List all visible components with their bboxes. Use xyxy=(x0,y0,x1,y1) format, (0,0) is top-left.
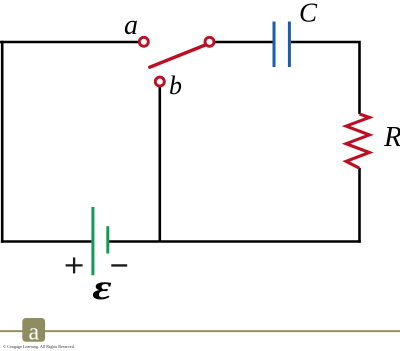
node b terminal circle xyxy=(155,77,164,86)
svg-text:a: a xyxy=(28,319,39,345)
svg-text:ε: ε xyxy=(92,268,111,308)
svg-text:© Cengage Learning. All Rights: © Cengage Learning. All Rights Reserved. xyxy=(3,344,75,349)
capacitor C left plate xyxy=(273,22,276,68)
wire left vertical xyxy=(1,41,4,243)
switch pivot terminal circle xyxy=(205,37,214,46)
wire switch to capacitor xyxy=(214,41,272,44)
wire resistor to bottom-right corner xyxy=(358,168,361,243)
label a xyxy=(124,10,138,41)
wire capacitor to top-right corner and down to resistor xyxy=(291,42,360,114)
svg-text:R: R xyxy=(383,121,400,153)
wire bottom-right segment xyxy=(107,240,361,243)
label R xyxy=(383,121,400,153)
node a terminal circle xyxy=(139,37,148,46)
switch lever (red, open toward node a) xyxy=(150,45,205,67)
wire top-left segment xyxy=(0,41,139,44)
svg-text:C: C xyxy=(299,0,318,28)
svg-text:a: a xyxy=(124,10,138,41)
battery short plate (negative) xyxy=(106,226,109,253)
figure footer rule xyxy=(0,330,400,332)
label + (battery positive) xyxy=(66,257,83,273)
wire from node b down to bottom wire xyxy=(159,86,162,241)
label &#8722; (battery negative) xyxy=(111,264,127,266)
label C xyxy=(299,0,318,28)
label b xyxy=(169,71,182,100)
battery long plate (positive) xyxy=(91,207,94,275)
svg-text:b: b xyxy=(169,71,182,100)
resistor R zigzag xyxy=(346,114,369,168)
copyright line xyxy=(3,344,75,349)
capacitor C right plate xyxy=(288,22,291,68)
figure part label badge (a) xyxy=(22,318,45,345)
wire bottom-left segment xyxy=(1,240,92,243)
label emf epsilon xyxy=(92,268,111,308)
